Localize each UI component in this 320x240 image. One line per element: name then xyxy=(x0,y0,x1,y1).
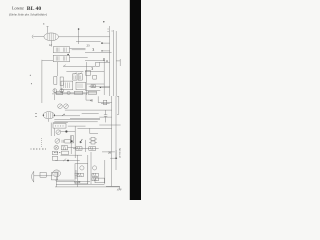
wire row2 xyxy=(68,146,77,148)
coil box L3 xyxy=(61,81,73,90)
rail tap 3 xyxy=(85,59,104,61)
wire caps xyxy=(89,139,97,143)
wire C1 to rail xyxy=(99,61,109,63)
ground wire right xyxy=(106,185,120,187)
chassis ground symbol xyxy=(117,186,122,190)
resistor R8 hatched xyxy=(77,173,83,176)
output row wire xyxy=(61,154,83,156)
antenna terminal xyxy=(32,35,36,39)
mechanical link (dashed) xyxy=(41,138,43,148)
IF transformer T2 box xyxy=(53,55,69,62)
bottom wire 3 xyxy=(56,184,104,186)
T2 windings xyxy=(56,56,66,60)
junction dot avc xyxy=(67,54,69,56)
rectifier circle xyxy=(80,166,84,170)
vertical drop xyxy=(86,94,92,100)
left bus rail xyxy=(41,60,43,103)
tube V2 end dots xyxy=(43,115,44,116)
svg-text:3: 3 xyxy=(92,47,94,52)
wire long row b xyxy=(54,121,97,123)
resistor R1 (vertical) xyxy=(54,77,57,85)
wire to junction xyxy=(61,130,75,132)
dark arrow mark xyxy=(80,139,82,143)
padder coil L2 with arrow xyxy=(78,74,82,80)
speaker cone xyxy=(32,171,34,182)
svg-text:11: 11 xyxy=(106,59,109,63)
L drop right xyxy=(90,128,98,133)
bottom wire 1 xyxy=(55,179,74,181)
bracket small a xyxy=(53,151,58,155)
coupling cap marks xyxy=(75,170,78,179)
resistor R5 xyxy=(61,146,67,150)
capacitor C4 on line xyxy=(104,100,107,105)
IF transformer T1 box xyxy=(53,47,69,53)
vertical audio right xyxy=(74,126,76,158)
page background xyxy=(0,0,141,200)
wire to rail with dot xyxy=(102,42,110,44)
T1 windings xyxy=(56,48,66,52)
wire bottom osc row xyxy=(52,93,87,95)
box row3 xyxy=(61,151,68,154)
resistor R2 (vertical) xyxy=(60,77,63,85)
output transformer box xyxy=(51,173,57,180)
wire long row c xyxy=(82,112,99,114)
wire row audio bottom xyxy=(73,148,99,150)
rail tap + xyxy=(102,50,110,52)
vertical x85 xyxy=(85,140,87,152)
drop to bottom xyxy=(55,177,57,187)
caps stack C6 xyxy=(91,138,95,141)
ganged switch S1b xyxy=(60,89,64,93)
svg-text:Lorenz: Lorenz xyxy=(12,6,24,11)
wire V1 anode to node xyxy=(59,36,110,38)
lower rail 2 xyxy=(115,96,117,170)
labels xyxy=(43,22,122,185)
wire right low xyxy=(99,124,120,126)
HT rail 2 xyxy=(113,30,115,96)
rail tap 2 xyxy=(85,51,112,53)
junction dot feed xyxy=(115,157,117,159)
wire grid return xyxy=(76,40,101,42)
speck xyxy=(103,21,104,22)
wire T2 out xyxy=(70,57,88,59)
wire hook xyxy=(53,122,68,124)
capacitor C2 box xyxy=(85,71,90,76)
trimmer TC1 xyxy=(58,104,63,109)
wire top right of output xyxy=(102,151,115,153)
wire long row a xyxy=(70,118,100,120)
junction dot rail xyxy=(101,42,103,44)
resistor R3 (hatched) xyxy=(91,85,96,88)
driver row wire with arrow xyxy=(55,159,79,162)
HT rail 1 xyxy=(109,26,111,96)
rail head ticks xyxy=(108,29,113,32)
svg-text:26: 26 xyxy=(108,151,112,155)
black scan border band right xyxy=(130,0,141,200)
tick to bracket xyxy=(116,59,120,66)
box B2 on band line xyxy=(74,91,83,94)
node with junction dot xyxy=(78,29,80,44)
number strip xyxy=(31,148,47,150)
svg-text:23: 23 xyxy=(87,44,91,48)
pilot circle right xyxy=(93,166,97,170)
wire T1 out upper xyxy=(72,49,86,51)
junction dot rail87 xyxy=(100,87,101,88)
capacitor C3 xyxy=(93,75,97,79)
speck margin b xyxy=(31,83,32,84)
rail tap with dot xyxy=(100,86,110,88)
left bracket vertical xyxy=(50,123,52,136)
bottom long wire xyxy=(55,186,120,188)
wire speaker to tube xyxy=(34,175,53,177)
T wire right xyxy=(68,125,86,127)
lower rail 1 xyxy=(111,96,113,186)
vertical drop left xyxy=(53,94,55,100)
wire out avc dot2 xyxy=(101,50,102,51)
wire mid right xyxy=(85,71,104,73)
dial scale box xyxy=(53,124,66,129)
speck margin a xyxy=(30,75,31,76)
bracket small b xyxy=(53,156,58,160)
HT rail 3 xyxy=(115,31,117,96)
bottom wire 2 xyxy=(56,180,90,182)
tube V1 (RF/mixer valve, horizontal envelope) xyxy=(44,33,59,41)
wire T1 secondary out xyxy=(70,48,86,50)
output right vertical xyxy=(77,155,79,187)
mains/power box xyxy=(75,164,88,184)
V2 cathode marks xyxy=(35,114,37,117)
bracket rail xyxy=(117,96,119,114)
wire left rail to T2 xyxy=(42,59,53,61)
tube V2 (IF valve envelope) xyxy=(43,112,54,119)
box B1 on band line xyxy=(56,91,62,94)
tube V1 top-cap lead xyxy=(47,27,49,34)
speaker driver box xyxy=(40,172,46,177)
tube V2 electrodes xyxy=(47,112,53,118)
wire row2 xyxy=(89,86,110,88)
wire antenna to tube V1 xyxy=(36,36,44,38)
svg-text:BL 40: BL 40 xyxy=(27,6,42,12)
vertical feed xyxy=(103,60,105,95)
wire right mid xyxy=(99,116,111,118)
wire row3 xyxy=(85,90,100,92)
resistor R7 hatched xyxy=(89,147,96,150)
coil box L4 xyxy=(76,82,86,90)
tiny marks row3 xyxy=(54,152,60,154)
svg-text:(3+66/10): (3+66/10) xyxy=(119,148,122,158)
padder coil L1 with arrow xyxy=(73,74,77,80)
resistor R6 hatched xyxy=(76,147,82,150)
wire row tuning xyxy=(65,109,112,111)
right verticals output xyxy=(88,152,105,184)
trimmer TC2 xyxy=(64,104,69,109)
resistor R10 xyxy=(92,178,98,181)
vertical osc bus xyxy=(86,62,88,95)
drop from dial box xyxy=(53,128,55,136)
capacitor box C8 xyxy=(70,136,73,143)
arrow bump on V2 anode xyxy=(62,114,65,116)
coupling ticks xyxy=(62,140,64,143)
svg-text:45: 45 xyxy=(90,99,94,103)
tube V3 (output valve) xyxy=(53,170,61,177)
svg-text:3: 3 xyxy=(91,67,93,71)
rail tap lower xyxy=(101,103,110,105)
junction dot top xyxy=(78,28,80,30)
wire C4 row xyxy=(98,102,111,104)
box B3 on band line xyxy=(88,91,97,94)
wire below T2 xyxy=(56,62,58,76)
feed with dot xyxy=(110,150,117,158)
trimmer circle on band xyxy=(67,91,70,94)
AVC line with arrow xyxy=(63,65,95,67)
switch circle S2 xyxy=(54,145,59,150)
junction dot audio xyxy=(65,130,67,132)
capacitor C1 small box xyxy=(96,62,100,66)
resistor R4 xyxy=(65,139,71,143)
resistor R9 xyxy=(92,173,98,176)
capacitor C5 plates xyxy=(104,110,107,122)
ganged switch S1a xyxy=(53,89,57,93)
wire row xyxy=(87,83,104,85)
wire oscillator row xyxy=(66,71,83,73)
caps stack C7 xyxy=(91,141,95,144)
vertical x71 xyxy=(70,136,72,154)
tube V1 grid electrodes xyxy=(47,33,55,40)
svg-text:U-20: U-20 xyxy=(75,181,81,184)
long wire to rail xyxy=(77,127,111,129)
V2 bottom drop xyxy=(48,119,50,122)
junction dot driver xyxy=(67,160,69,162)
stub xyxy=(97,96,99,102)
terminal box xyxy=(95,178,104,183)
wire V2 anode xyxy=(55,115,81,117)
band line with component boxes xyxy=(54,92,96,94)
junction dot R4 xyxy=(71,140,73,142)
pot P0 with arrow xyxy=(56,130,61,135)
volume pot P1 xyxy=(55,139,60,144)
wire V1 bottom to T1 xyxy=(51,41,53,47)
wire long audio top xyxy=(54,119,100,121)
svg-text:(Siehe Seite der. Schaltbilder: (Siehe Seite der. Schaltbilder) xyxy=(9,12,47,16)
